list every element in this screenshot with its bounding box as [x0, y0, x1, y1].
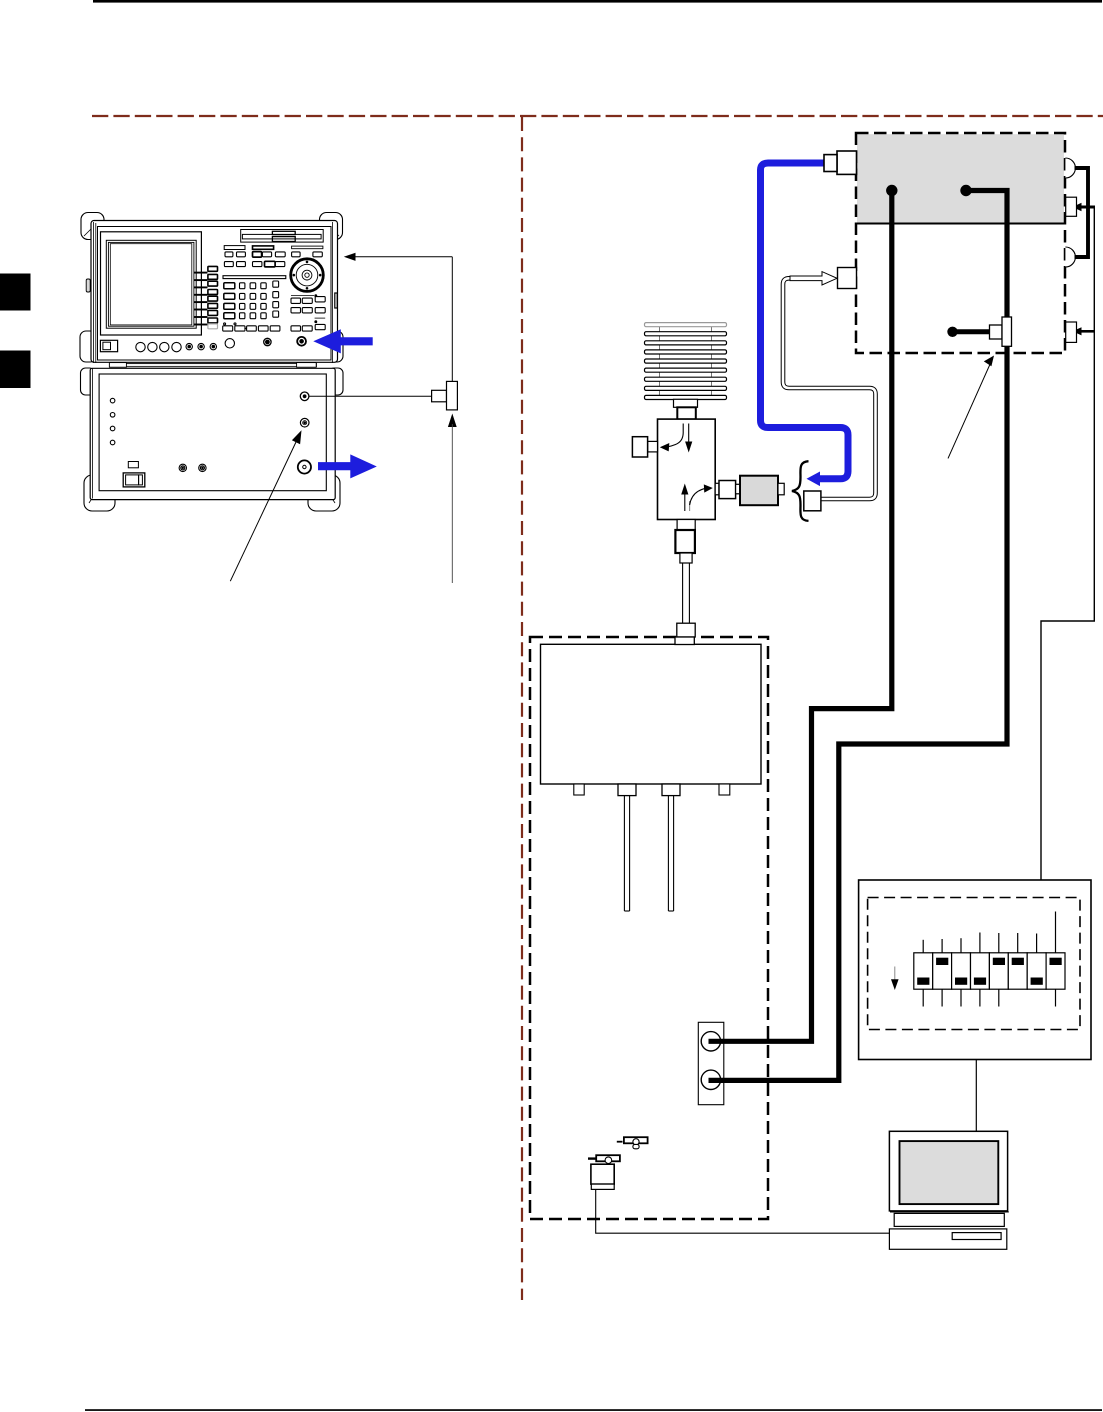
connector RF out big — [298, 460, 311, 473]
bottom footer rule — [85, 1409, 1102, 1411]
antenna whip 1 — [624, 796, 629, 911]
ring connector — [297, 337, 306, 346]
edge square connector upper — [1066, 197, 1077, 216]
softkey column — [208, 266, 218, 328]
edge square connector lower — [1066, 322, 1077, 342]
solder dot 1 — [886, 185, 897, 196]
screen bezel — [101, 232, 202, 335]
keypad small keys — [240, 281, 279, 319]
DIP switch bank — [914, 953, 1065, 989]
attenuator pad — [740, 476, 778, 506]
attenuator right stub — [778, 483, 784, 495]
terminal block — [698, 1022, 724, 1104]
screen — [110, 244, 192, 325]
label plate — [128, 462, 138, 468]
connector 10MHz out — [300, 392, 309, 401]
RF unit stub 3 — [662, 784, 680, 796]
line switch unit to laptop — [975, 1060, 977, 1132]
test set upper unit (analyzer) — [80, 213, 343, 368]
long bar — [223, 276, 286, 279]
brace — [792, 461, 809, 521]
semicircle connector upper right — [1065, 158, 1075, 178]
jumper U-link — [1075, 168, 1089, 257]
keypad bottom row — [223, 323, 280, 331]
lower unit case — [90, 368, 335, 499]
heatsink neck — [674, 399, 698, 407]
attenuator left stub — [736, 484, 740, 494]
corner bumper bottom-left upper unit — [80, 331, 96, 362]
thick cable B from DUT to terminal bottom — [709, 191, 1008, 1081]
power switch — [123, 473, 145, 487]
coupler left port stub — [648, 441, 658, 452]
DIP switch leads bottom — [923, 989, 1055, 1006]
diagonal callout arrow to DUT connector — [948, 356, 994, 459]
white ribbon cable — [783, 278, 876, 499]
diagonal callout arrow to trigger connector — [230, 430, 301, 581]
connector trigger — [300, 418, 309, 427]
arrow below plug — [448, 414, 457, 584]
mid connectors — [179, 464, 186, 471]
blue arrow into upper unit — [313, 329, 372, 353]
brown dashed divider horizontal — [92, 115, 1103, 117]
round keys row — [136, 342, 145, 351]
key row 3 — [224, 261, 284, 267]
RF unit stub 4 — [719, 784, 730, 795]
coupler left port square — [632, 437, 647, 457]
left edge section tab 2 — [0, 351, 31, 389]
brown dashed divider vertical — [521, 117, 523, 1300]
corner bumper bottom-right upper unit — [327, 331, 343, 362]
header key bars — [224, 246, 245, 250]
left edge section tab 1 — [0, 274, 31, 311]
solder dot 2 — [960, 185, 971, 196]
DIP switch leads top — [923, 912, 1055, 953]
small connectors — [186, 343, 217, 349]
thick cable A from DUT to terminal top — [709, 191, 892, 1042]
DUT left edge connector square for white cable — [838, 268, 857, 289]
hinge strip — [109, 363, 316, 366]
adapter widget upper — [617, 1137, 648, 1149]
top header rule — [93, 0, 1102, 3]
directional coupler body — [658, 419, 716, 519]
corner bumper top-right — [320, 213, 343, 240]
lower unit bumper top-right — [329, 368, 343, 395]
lower unit bumper top-left — [81, 368, 95, 395]
key row 2 — [225, 252, 322, 258]
left latch — [86, 279, 90, 292]
white cable end square — [804, 491, 821, 511]
indicator holes — [110, 398, 115, 403]
power key upper unit — [100, 340, 117, 351]
floppy drive — [241, 230, 324, 243]
test set lower unit — [81, 368, 344, 511]
inline plug on cable B — [947, 317, 1011, 346]
coupler right port stub — [715, 483, 719, 495]
white cable open arrow into DUT — [790, 272, 837, 285]
coupler internal arrow down — [660, 424, 693, 453]
blue cable connector at DUT — [824, 151, 857, 174]
antenna whip 2 — [668, 796, 673, 911]
big round key — [225, 339, 234, 348]
blue arrow out of lower unit — [318, 454, 377, 478]
switch unit box — [859, 880, 1091, 1060]
RF unit stub 1 — [574, 784, 584, 795]
right slot — [335, 293, 337, 308]
DUT dashed box (top right) — [856, 133, 1065, 353]
heatsink load — [645, 323, 727, 400]
corner bumper top-left — [81, 213, 104, 240]
callout arrow to upper unit — [344, 253, 453, 382]
right key group — [291, 295, 325, 331]
thin cable from right edge connectors down to switch unit — [1041, 203, 1094, 880]
semicircle connector lower right — [1065, 247, 1075, 267]
coupler bottom stem — [675, 520, 695, 645]
coupler right port square — [719, 481, 736, 499]
small down arrow in switch unit — [891, 967, 899, 991]
RF unit stub 2 — [618, 784, 636, 796]
keypad column 1 — [224, 283, 235, 319]
blue cable arrowhead — [807, 472, 821, 487]
adapter widget lower with box — [588, 1155, 620, 1189]
lower unit foot bottom-left — [84, 475, 115, 511]
blue cable — [761, 163, 849, 479]
rotary knob — [291, 259, 324, 292]
cable plug callout — [309, 381, 458, 410]
lower unit foot bottom-right — [308, 475, 340, 511]
serial cable from fixture to laptop — [596, 1190, 890, 1233]
coupler internal arrow up — [681, 484, 713, 512]
dark connector — [264, 338, 271, 345]
RF unit box — [541, 644, 762, 784]
upper unit case — [91, 221, 338, 363]
big dashed box (left lower) — [530, 637, 768, 1219]
laptop — [889, 1131, 1008, 1249]
softkey tick lines — [194, 273, 208, 325]
